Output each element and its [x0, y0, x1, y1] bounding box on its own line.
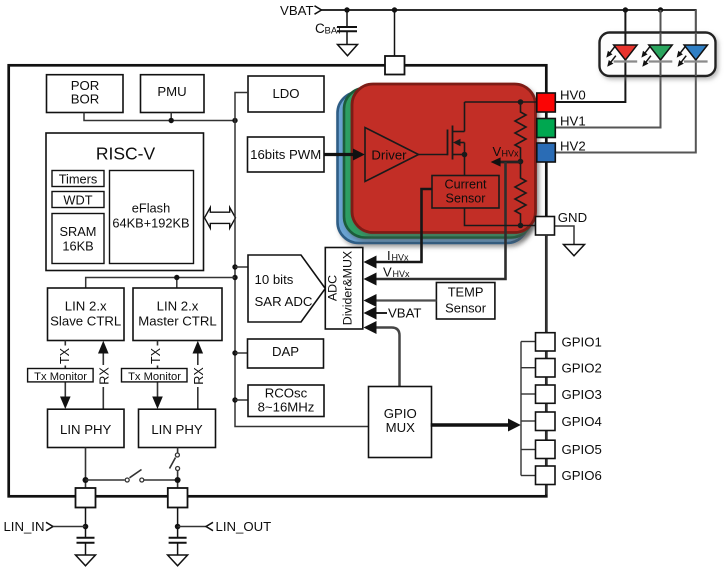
pin GND: [536, 217, 555, 236]
svg-text:GPIO4: GPIO4: [562, 414, 602, 429]
transistor Q1 gate lead: [419, 154, 448, 156]
pin VBAT: [385, 56, 405, 75]
svg-text:eFlash: eFlash: [132, 201, 170, 216]
block 16bits PWM: [248, 137, 325, 172]
block LIN 2.x Master CTRL: [133, 288, 222, 341]
svg-text:Driver: Driver: [371, 148, 407, 163]
capacitor CBAT: [315, 10, 357, 45]
wire stub GPIO4: [521, 420, 536, 422]
wire green LED through box: [660, 33, 662, 77]
wire stub to RCOsc: [235, 399, 248, 401]
svg-text:RX: RX: [192, 367, 206, 385]
svg-text:10 bits: 10 bits: [255, 272, 294, 287]
switch SW2 vertical: [170, 453, 180, 488]
label TX slave: [58, 346, 72, 366]
svg-text:V: V: [493, 144, 502, 159]
junction LED green branch: [658, 7, 663, 12]
op-amp Driver: [365, 128, 419, 182]
svg-text:BOR: BOR: [71, 91, 100, 106]
label LIN_IN: [3, 519, 85, 534]
svg-text:TX: TX: [149, 347, 163, 364]
svg-text:GPIO1: GPIO1: [562, 335, 602, 350]
block Tx Monitor slave: [28, 369, 94, 384]
block LIN 2.x Slave CTRL: [48, 288, 125, 341]
svg-text:Tx Monitor: Tx Monitor: [34, 371, 87, 383]
svg-text:GPIO2: GPIO2: [562, 361, 602, 376]
switch SW1 horizontal: [86, 470, 178, 483]
wire HV0 to red LED: [555, 10, 625, 102]
svg-text:SAR ADC: SAR ADC: [255, 294, 313, 309]
junction divider tap: [518, 159, 524, 165]
block GPIO MUX: [369, 387, 432, 458]
svg-text:LIN_OUT: LIN_OUT: [216, 519, 272, 534]
wire HV2 to blue LED: [555, 10, 696, 153]
wire drain to HV0: [465, 101, 538, 103]
svg-text:Tx Monitor: Tx Monitor: [128, 371, 181, 383]
svg-text:Timers: Timers: [59, 171, 98, 186]
label TX master: [149, 346, 164, 366]
block TEMP Sensor: [436, 283, 495, 320]
svg-text:SRAM: SRAM: [60, 224, 97, 239]
arrow PWM to Driver: [324, 149, 365, 161]
wire VHVx down to ADC: [375, 162, 506, 279]
wire TX slave: [64, 341, 66, 399]
capacitor LIN_IN: [77, 538, 95, 555]
wire PHY slave down: [85, 448, 87, 489]
svg-text:16bits PWM: 16bits PWM: [250, 147, 321, 162]
junction bus-POR: [232, 118, 237, 123]
wire VBAT pin to rail: [394, 10, 396, 56]
pin HV2: [537, 143, 556, 162]
block Current Sensor: [432, 176, 499, 209]
block SRAM 16KB: [52, 214, 104, 264]
pin GPIO5: [536, 440, 556, 458]
junction LED red branch: [623, 7, 628, 12]
LED green: [641, 45, 672, 67]
label VHVx adc input: [383, 265, 410, 280]
wire master stub: [176, 278, 178, 289]
block ADC Divider&MUX: [325, 248, 363, 330]
svg-text:ADC: ADC: [326, 275, 340, 301]
block 10 bits SAR ADC: [248, 255, 325, 322]
svg-text:RX: RX: [97, 367, 111, 385]
svg-text:C: C: [315, 21, 325, 36]
junction bus-LIN: [232, 275, 237, 280]
wire stub GPIO5: [521, 449, 536, 451]
resistor divider lower: [515, 162, 526, 226]
arrow RX slave up: [98, 341, 109, 354]
svg-text:RISC-V: RISC-V: [96, 143, 156, 163]
block PMU: [141, 75, 205, 113]
svg-text:Slave CTRL: Slave CTRL: [50, 314, 121, 329]
pin LIN_IN: [76, 488, 96, 508]
bus double arrow eFlash: [205, 207, 236, 228]
svg-text:WDT: WDT: [63, 192, 92, 207]
wire stub to SAR ADC: [235, 266, 248, 268]
arrow RX master up: [193, 341, 204, 354]
arrow VHVx tap: [491, 157, 521, 166]
wire HV1 to green LED: [555, 10, 661, 128]
junction LIN_OUT: [175, 524, 181, 530]
wire VBAT top rail: [322, 10, 696, 33]
block LDO: [248, 76, 324, 112]
junction VBAT pin drop: [392, 7, 397, 12]
svg-text:LIN PHY: LIN PHY: [151, 422, 203, 437]
svg-text:PMU: PMU: [157, 84, 186, 99]
wire TX master: [157, 341, 159, 399]
ground LIN_IN: [76, 555, 96, 566]
junction bus-RCOsc: [232, 397, 237, 402]
svg-text:HVx: HVx: [502, 149, 520, 159]
chip boundary: [9, 65, 547, 496]
block LIN PHY slave: [48, 409, 125, 447]
svg-text:GPIO5: GPIO5: [562, 442, 602, 457]
net VBAT label: [280, 3, 321, 18]
wire VBAT sense stub: [375, 312, 387, 314]
svg-text:Current: Current: [445, 177, 487, 191]
wire LIN ctrl bus: [86, 278, 235, 289]
svg-text:LIN PHY: LIN PHY: [60, 422, 112, 437]
svg-text:MUX: MUX: [386, 420, 416, 435]
junction divider top: [518, 99, 524, 105]
arrow TEMP into ADC: [364, 294, 377, 307]
resistor divider upper: [515, 102, 526, 162]
wire LIN_IN below pin: [85, 508, 87, 538]
wire stub GPIO1: [521, 341, 536, 343]
svg-text:Sensor: Sensor: [446, 192, 486, 206]
wire red LED through box: [624, 33, 626, 77]
svg-text:16KB: 16KB: [62, 238, 93, 253]
label IHVx: [387, 248, 409, 263]
pin HV0: [537, 93, 556, 112]
wire main vertical bus: [235, 93, 369, 427]
svg-text:HV0: HV0: [560, 88, 586, 103]
label VHVx at tap: [493, 144, 520, 159]
arrow IHVx into ADC: [364, 256, 377, 269]
svg-text:HV2: HV2: [560, 139, 586, 154]
channel layer red: [352, 84, 536, 233]
wire stub GPIO6: [521, 475, 536, 477]
pin GPIO6: [536, 466, 556, 485]
channel layer green: [344, 88, 532, 238]
svg-text:Sensor: Sensor: [445, 300, 487, 315]
junction divider bottom: [518, 223, 524, 229]
ground CBAT: [338, 45, 358, 56]
junction master stub: [174, 275, 179, 280]
svg-text:Divider&MUX: Divider&MUX: [341, 251, 355, 325]
arrow MUX into ADC: [364, 321, 377, 334]
arrow TX slave down: [60, 397, 71, 410]
block LIN PHY master: [139, 409, 216, 447]
channel layer blue: [338, 92, 529, 243]
svg-text:64KB+192KB: 64KB+192KB: [112, 216, 189, 231]
wire GND pin to ground: [555, 226, 575, 245]
pin GPIO2: [536, 359, 556, 378]
label RX slave: [97, 365, 111, 387]
wire RX slave: [102, 353, 104, 410]
arrow VBAT into ADC: [364, 307, 377, 320]
ground GND pin: [564, 245, 585, 256]
pin GPIO3: [536, 385, 556, 403]
arrow TX master down: [152, 397, 163, 410]
svg-text:V: V: [383, 265, 392, 280]
svg-text:GPIO3: GPIO3: [562, 387, 602, 402]
block Tx Monitor master: [122, 369, 188, 384]
arrow GPIO MUX to GPIO4: [431, 419, 521, 432]
svg-text:GPIO6: GPIO6: [562, 468, 602, 483]
svg-text:LIN_IN: LIN_IN: [3, 519, 44, 534]
wire TEMP to ADC: [375, 299, 437, 301]
wire stub GPIO2: [521, 367, 536, 369]
wire blue LED through box: [695, 33, 697, 77]
wire RX master: [197, 353, 199, 410]
ground LIN_OUT: [168, 555, 188, 566]
block RISC-V: [46, 133, 204, 271]
svg-text:VBAT: VBAT: [280, 3, 313, 18]
svg-text:Master CTRL: Master CTRL: [138, 314, 216, 329]
svg-text:GPIO: GPIO: [384, 406, 417, 421]
wire stub to DAP: [235, 352, 248, 354]
LED module box: [600, 33, 716, 77]
wire PHY master down: [177, 448, 179, 453]
junction slave node: [83, 477, 89, 483]
junction master node: [175, 477, 181, 483]
pin GPIO1: [536, 333, 556, 351]
block Timers: [52, 171, 104, 187]
label LIN_OUT: [178, 519, 272, 534]
pin GPIO4: [536, 412, 556, 431]
svg-text:LIN 2.x: LIN 2.x: [65, 299, 107, 314]
junction PMU: [169, 118, 174, 123]
junction LIN_IN: [83, 524, 89, 530]
block POR/BOR: [47, 75, 124, 113]
wire GPIO left bus: [520, 342, 522, 476]
svg-text:DAP: DAP: [272, 344, 299, 359]
pin HV1: [537, 119, 556, 138]
wire PMU stub: [170, 113, 172, 121]
transistor Q1: [448, 102, 468, 176]
wire sensor bottom rail to GND: [465, 208, 538, 226]
wire LIN_OUT below pin: [177, 508, 179, 538]
arrow VHVx into ADC: [364, 273, 377, 286]
block WDT: [52, 192, 104, 208]
capacitor LIN_OUT: [169, 538, 187, 555]
svg-text:HVx: HVx: [392, 253, 410, 263]
svg-text:LDO: LDO: [272, 86, 299, 101]
pin LIN_OUT: [168, 488, 188, 508]
LED blue: [677, 45, 708, 67]
junction CBAT: [344, 7, 349, 12]
block eFlash: [110, 171, 194, 264]
wire stub GPIO3: [521, 393, 536, 395]
junction bus-ADC: [232, 264, 237, 269]
wire GPIO MUX to ADC: [375, 328, 400, 387]
block DAP: [248, 339, 324, 368]
svg-text:HVx: HVx: [393, 269, 411, 279]
svg-text:TX: TX: [58, 347, 72, 364]
svg-text:GND: GND: [558, 210, 587, 225]
wire IHVx from sensor to ADC: [375, 189, 432, 262]
label RX master: [192, 365, 206, 387]
LED red: [606, 45, 637, 67]
svg-text:LIN 2.x: LIN 2.x: [157, 299, 199, 314]
junction bus-DAP: [232, 350, 237, 355]
svg-text:VBAT: VBAT: [388, 306, 421, 321]
svg-text:8~16MHz: 8~16MHz: [258, 400, 315, 415]
svg-text:TEMP: TEMP: [448, 284, 484, 299]
wire POR-PMU to bus: [84, 113, 235, 121]
svg-text:RCOsc: RCOsc: [265, 385, 308, 400]
svg-text:I: I: [387, 248, 391, 263]
svg-text:HV1: HV1: [560, 113, 586, 128]
block RCOsc: [248, 385, 324, 417]
wire gpio chain vertical: [545, 235, 547, 495]
